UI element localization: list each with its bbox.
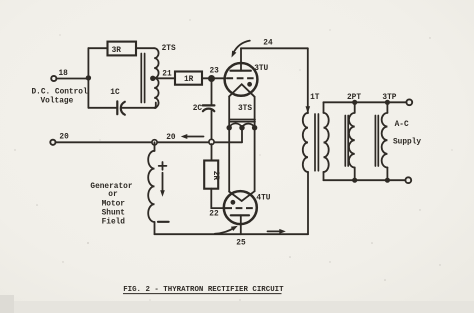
svg-text:3TS: 3TS — [238, 105, 252, 113]
wire node 23 down to 2C — [211, 80, 213, 105]
4TU filament — [229, 191, 254, 201]
terminal 20 — [50, 140, 55, 145]
3TU gas dot — [247, 82, 252, 87]
svg-text:23: 23 — [210, 67, 220, 75]
node 23 — [209, 76, 215, 82]
svg-text:Field: Field — [102, 219, 126, 227]
svg-text:FIG. 2 - THYRATRON RECTIFIER C: FIG. 2 - THYRATRON RECTIFIER CIRCUIT — [123, 286, 284, 294]
wire tap to 1R — [153, 77, 175, 79]
resistor 2R — [204, 161, 218, 189]
curved firing arrow 4TU — [215, 227, 235, 233]
svg-text:or: or — [108, 191, 118, 199]
svg-text:18: 18 — [59, 70, 69, 78]
plus sign — [159, 165, 167, 167]
transformer 2TS winding — [154, 48, 158, 108]
svg-text:3TU: 3TU — [254, 65, 268, 73]
capacitor 2C — [203, 104, 215, 106]
wire 2R to 4TU grid node 22 — [210, 189, 212, 208]
svg-text:4TU: 4TU — [256, 194, 270, 202]
svg-text:3R: 3R — [112, 47, 122, 55]
svg-text:2TS: 2TS — [162, 45, 176, 53]
svg-text:24: 24 — [263, 39, 273, 47]
wire top rail to 3R — [88, 47, 107, 49]
svg-text:25: 25 — [236, 240, 246, 248]
curved firing arrow 3TU — [233, 41, 250, 54]
svg-text:1R: 1R — [184, 76, 194, 84]
terminal 18 — [51, 76, 56, 81]
3TS terminal dots — [227, 125, 232, 130]
svg-text:20: 20 — [166, 134, 176, 142]
svg-text:22: 22 — [209, 211, 219, 219]
svg-text:20: 20 — [59, 134, 69, 142]
AC top rail — [324, 101, 407, 103]
wire junction down to 2R — [211, 144, 213, 161]
wire bottom rail to 1C — [88, 107, 117, 109]
svg-text:Generator: Generator — [90, 183, 132, 191]
wire rail 20 up to 3TS center tap — [241, 128, 243, 143]
3TU filament — [229, 84, 254, 97]
thyratron 4TU — [224, 191, 257, 224]
thyratron 3TU — [225, 63, 258, 96]
3TU plate — [231, 70, 251, 72]
node 21 center tap — [150, 76, 155, 81]
svg-text:A-C: A-C — [395, 121, 409, 129]
4TU plate — [231, 214, 249, 216]
junction circle 2R branch — [209, 139, 214, 144]
wire 1C to 2TS winding bottom — [122, 107, 156, 109]
inductor generator/motor shunt field — [148, 151, 154, 222]
svg-text:Voltage: Voltage — [41, 97, 74, 105]
svg-text:2R: 2R — [211, 171, 219, 181]
wire: terminal 18 to junction — [57, 78, 89, 80]
svg-text:Shunt: Shunt — [102, 210, 125, 218]
3TU filament leads down to 3TS — [228, 96, 230, 127]
svg-text:1T: 1T — [310, 94, 320, 102]
shunt field branch wire — [154, 142, 156, 151]
filament leads down to 4TU — [228, 128, 230, 192]
node junction at 18 branch — [86, 75, 91, 80]
wire 3R to 2TS winding top — [136, 47, 154, 49]
minus sign — [158, 221, 169, 223]
resistor 3R — [108, 42, 137, 56]
wire bottom rail 25 — [155, 233, 309, 235]
wire rail 20 — [56, 141, 242, 143]
wire 24 from 3TU plate — [241, 47, 308, 49]
wire RC loop left vertical — [87, 48, 89, 108]
svg-text:2C: 2C — [193, 105, 203, 113]
arrow right on bottom rail — [268, 230, 283, 232]
svg-text:1C: 1C — [110, 89, 120, 97]
svg-text:D.C. Control: D.C. Control — [32, 89, 88, 97]
arrow left on rail 20 — [184, 136, 204, 138]
4TU gas dot — [231, 200, 236, 205]
svg-text:Motor: Motor — [102, 201, 126, 209]
3TU grid (dashed) — [226, 77, 253, 79]
4TU grid (dashed) — [225, 207, 253, 209]
transformer 2TS core — [140, 54, 142, 103]
AC terminals — [406, 99, 412, 105]
AC bottom rail — [324, 179, 406, 181]
svg-text:Supply: Supply — [393, 139, 421, 147]
current arrow down — [162, 173, 164, 192]
svg-text:3TP: 3TP — [382, 94, 396, 102]
junction circle shunt branch — [152, 140, 157, 145]
capacitor 1C — [116, 101, 118, 114]
wire 24 down to 1T — [307, 48, 309, 113]
resistor 1R — [175, 72, 202, 85]
svg-text:21: 21 — [162, 71, 172, 79]
wire 2C to rail 20 junction — [211, 111, 213, 140]
wire 1R to node 23 and 3TU grid — [202, 77, 226, 79]
